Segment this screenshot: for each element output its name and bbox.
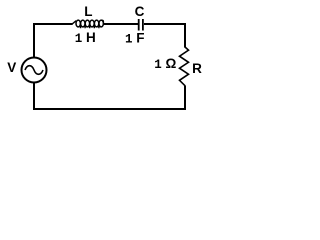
wire left vertical upper (33, 23, 35, 58)
inductor L exit lead (101, 20, 103, 24)
svg-text:1 F: 1 F (125, 30, 145, 46)
inductor L coil: loop 6 (99, 20, 103, 27)
svg-text:1 H: 1 H (75, 30, 96, 46)
AC source V circle (22, 58, 47, 83)
svg-text:V: V (7, 60, 16, 75)
capacitor C right plate (142, 19, 144, 31)
capacitor C left plate (138, 19, 140, 31)
inductor L coil: loop 2 (81, 20, 85, 27)
resistor R zigzag (180, 47, 189, 86)
inductor L coil: loop 4 (90, 20, 94, 27)
wire bottom (33, 108, 186, 110)
inductor L entry lead (72, 21, 76, 24)
wire left vertical lower (33, 83, 35, 111)
inductor L coil crossing ticks (81, 26, 99, 29)
circuit schematic: series RLC loop with AC source (0, 0, 212, 123)
svg-text:L: L (84, 4, 92, 19)
wire top-left segment (33, 23, 73, 25)
wire top right segment (144, 23, 186, 25)
inductor L coil: loop 5 (94, 20, 98, 27)
inductor L coil: loop 1 (76, 20, 80, 27)
inductor L coil: loop 3 (85, 20, 89, 27)
svg-text:1 Ω: 1 Ω (154, 56, 176, 72)
svg-text:C: C (135, 4, 145, 19)
wire right vertical upper (184, 23, 186, 48)
wire top middle segment (103, 23, 138, 25)
wire right vertical lower (184, 86, 186, 111)
AC source sine wave (25, 66, 43, 75)
svg-text:R: R (192, 61, 202, 76)
